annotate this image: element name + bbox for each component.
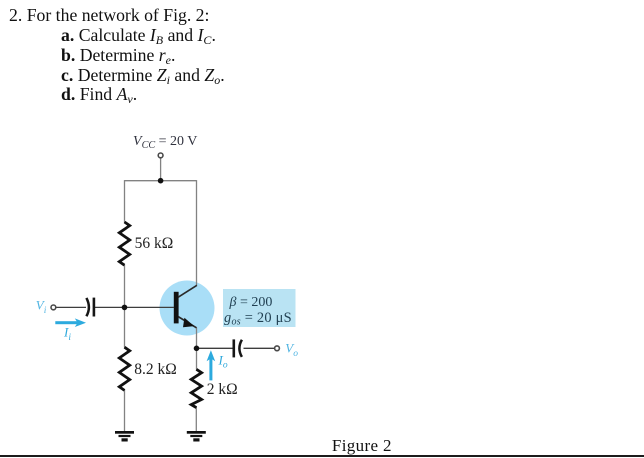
terminal: Vcc open circle — [158, 153, 163, 158]
node: base junction dot — [122, 305, 128, 311]
wire: below 2k resistor — [195, 407, 197, 431]
item b — [61, 47, 175, 65]
wire: capacitor to base — [95, 306, 174, 308]
terminal: Vi open circle — [51, 305, 56, 310]
svg-text:Vi: Vi — [36, 298, 47, 316]
item a — [61, 27, 216, 45]
svg-text:β = 200: β = 200 — [229, 295, 273, 310]
bottom rule — [0, 455, 644, 458]
transistor Q1 collector lead — [178, 285, 197, 297]
wire: emitter node to output capacitor — [197, 347, 234, 349]
transistor Q1 emitter lead — [178, 317, 196, 328]
wire: Vcc terminal stub — [160, 158, 162, 181]
problem statement line 1 — [9, 7, 209, 25]
item d — [61, 86, 137, 104]
ground (right) — [187, 431, 206, 442]
resistor R2 8.2 kOhm — [119, 347, 129, 390]
arrow Io (output current) — [207, 350, 216, 380]
node: emitter junction dot — [194, 346, 200, 352]
svg-text:Vo: Vo — [285, 340, 298, 358]
capacitor C1 (input) curved plate — [86, 298, 89, 316]
node: Vcc junction dot — [158, 178, 164, 184]
wire: top horizontal — [125, 180, 197, 182]
ground (left) — [115, 431, 134, 442]
wire: left rail upper — [124, 180, 126, 222]
svg-text:Io: Io — [218, 352, 228, 370]
arrow Ii (input current) — [55, 318, 86, 327]
capacitor C1 (input) straight plate — [93, 298, 96, 317]
svg-text:56 kΩ: 56 kΩ — [135, 235, 174, 252]
resistor RE 2 kOhm — [191, 369, 201, 407]
transistor Q1 emitter arrowhead — [183, 318, 194, 328]
wire: right rail (collector) — [196, 180, 198, 285]
svg-text:VCC = 20 V: VCC = 20 V — [133, 134, 197, 151]
caption Figure 2 — [332, 437, 392, 454]
wire: output capacitor to Vo terminal — [244, 347, 275, 349]
transistor Q1 base bar — [174, 292, 179, 324]
terminal: Vo open circle — [275, 346, 280, 351]
item c — [61, 67, 225, 85]
wire: emitter vertical — [196, 328, 198, 370]
svg-text:2 kΩ: 2 kΩ — [207, 381, 238, 398]
wire: left rail lower — [124, 390, 126, 432]
svg-text:8.2 kΩ: 8.2 kΩ — [134, 361, 177, 378]
transistor highlight circle — [160, 281, 215, 336]
capacitor C2 (output) straight plate — [233, 339, 236, 357]
wire: input segment Vi to capacitor — [56, 306, 86, 308]
parameter box — [223, 289, 296, 327]
svg-text:Ii: Ii — [63, 324, 71, 342]
wire: left rail middle — [124, 265, 126, 348]
capacitor C2 (output) curved plate — [239, 340, 242, 357]
resistor R1 56 kOhm — [119, 222, 129, 265]
